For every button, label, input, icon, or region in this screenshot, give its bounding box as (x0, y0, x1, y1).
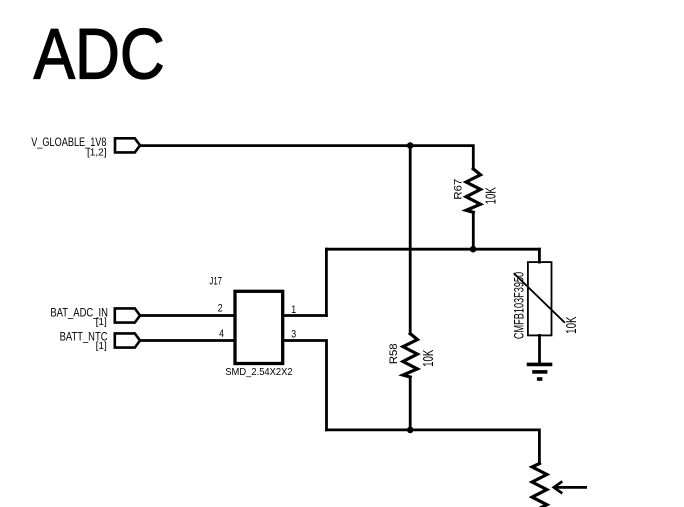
resistor R58 (388, 334, 436, 377)
wire R58 bottom lead (409, 377, 412, 430)
wire rail left end down to pin 1 (325, 249, 328, 315)
wire mid horizontal rail y=249 (326, 248, 539, 251)
pin number 4 (219, 328, 224, 340)
wire vertical 1V8 down to R58 (409, 146, 412, 334)
svg-text:10K: 10K (482, 187, 498, 205)
title ADC (34, 16, 165, 95)
wire rail right end down to thermistor (538, 249, 541, 262)
svg-text:J17: J17 (209, 274, 222, 287)
arrow pointing at variable resistor (554, 481, 587, 493)
resistor R67 (452, 169, 498, 212)
svg-text:CMFB103F3950: CMFB103F3950 (511, 272, 528, 340)
wire bottom rail y=429.9 (327, 430, 540, 464)
svg-text:[1,2]: [1,2] (87, 147, 107, 158)
svg-text:[1]: [1] (96, 317, 107, 328)
node junction at 1V8 / R58 branch (407, 142, 414, 149)
pin number 1 (291, 304, 296, 316)
wire pin 1 to rail riser (283, 314, 327, 317)
svg-text:SMD_2.54X2X2: SMD_2.54X2X2 (225, 367, 292, 378)
node junction R58 bottom / bottom rail (407, 427, 414, 434)
connector J17 body (209, 274, 292, 378)
ground (527, 364, 553, 379)
pin number 3 (291, 328, 296, 340)
thermistor RT CMFB103F3950 body (511, 262, 580, 339)
wire R67 bottom lead (472, 212, 475, 249)
svg-text:ADC: ADC (34, 16, 165, 95)
net flag V_GLOABLE_1V8 (31, 136, 140, 159)
wire V_GLOABLE_1V8 to R67 top corner (140, 146, 473, 169)
svg-text:2: 2 (218, 302, 223, 314)
svg-text:[1]: [1] (96, 341, 107, 352)
svg-text:10K: 10K (563, 316, 579, 334)
pin number 2 (218, 302, 223, 314)
wire thermistor bottom lead (538, 335, 541, 364)
svg-text:10K: 10K (420, 349, 436, 367)
net flag BATT_NTC (60, 330, 140, 352)
node junction R67 bottom / rail (470, 246, 477, 253)
wire BATT_NTC to pin 4 (140, 339, 235, 342)
svg-text:4: 4 (219, 328, 224, 340)
svg-text:R58: R58 (388, 343, 400, 364)
net flag BAT_ADC_IN (50, 306, 140, 328)
svg-text:R67: R67 (452, 179, 464, 200)
svg-text:3: 3 (291, 328, 296, 340)
variable resistor (potentiometer) bottom right (532, 464, 547, 507)
wire BAT_ADC_IN to pin 2 (140, 314, 235, 317)
wire pin 3 right and down to bottom rail (283, 341, 327, 430)
